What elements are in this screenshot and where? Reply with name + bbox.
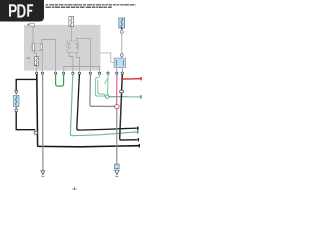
B3 pin right down (121, 68, 123, 73)
heavy dark wire down with L to tick (120, 74, 137, 140)
wire R1 to fuse F1 (34, 51, 37, 57)
end tick green bus (137, 130, 138, 133)
green wire right to edge (109, 96, 140, 98)
connector circle C1 (105, 95, 109, 99)
wire R1 right pin down to terminal (41, 51, 43, 73)
relay R2 (dashed box with coil and contact) (67, 41, 78, 52)
blue square connector (115, 164, 120, 169)
end tick green right (140, 95, 141, 98)
light green wire down to green bus (70, 74, 136, 135)
junction square (34, 131, 37, 134)
relay B3 (blue box) (114, 58, 125, 68)
page arrow on left branch (15, 91, 18, 94)
wire R2 top-right jog to terminal 90 (77, 38, 91, 72)
connector circle below B2 (15, 107, 17, 109)
end tick bus2 (139, 144, 140, 148)
green M diagonal (105, 79, 108, 85)
stub into B3 (121, 56, 123, 58)
page background (0, 0, 149, 198)
B3 pin left down (116, 68, 118, 73)
red wire tee (122, 78, 140, 80)
fuse F1 (27, 57, 39, 66)
black wire B2 down and right to junction square (16, 112, 35, 130)
ground tick (41, 175, 44, 177)
wire F1 to terminal (36, 66, 38, 73)
fuse F2 (on top edge) (69, 17, 74, 27)
grey wire to circle C2 (90, 74, 115, 106)
black wire down to bus1 (77, 74, 137, 130)
oval connector on dark wire (120, 90, 124, 93)
end tick bus1 (137, 127, 138, 130)
green M right arm (107, 74, 109, 94)
arrow below blue square (115, 170, 119, 175)
pink wire down to C2 (116, 74, 118, 104)
black tee to left branch (16, 79, 37, 90)
PDF letters drawn as paths (10, 5, 33, 16)
green M loop outer (95, 74, 105, 96)
wire grey box to blue relay B3 (100, 53, 114, 62)
fusible link B2 (blue box left) (13, 95, 19, 106)
wire F3 down to B3 (121, 33, 123, 53)
junction block (grey box) (24, 25, 100, 71)
ground arrow left (41, 171, 45, 175)
wire box2 to relay R1 (32, 26, 34, 43)
wire R2 right pin down (77, 52, 80, 72)
PDF badge (0, 0, 44, 22)
terminals along box bottom (36, 72, 124, 74)
grey wire below C2 to blue square (116, 109, 118, 164)
grey wire T2 straight down to ground arrow (42, 74, 44, 170)
wire bottom bus inside box (64, 67, 100, 73)
page number (72, 188, 77, 190)
fuse F3 (blue, top right) (119, 18, 125, 28)
end tick dark L (138, 138, 139, 141)
connector circle above B3 (120, 54, 123, 57)
relay R1 (dashed box with coil and contact) (32, 43, 43, 51)
connector box 2 (top-left small box on box edge) (28, 23, 35, 26)
end tick red (140, 77, 141, 80)
dot below F3 (121, 28, 123, 30)
header title micro-text line 2 (46, 7, 112, 8)
header title micro-text line 1 (46, 4, 136, 5)
connector circle C2 (115, 104, 119, 108)
tick below arrow (115, 176, 118, 178)
black wire T1 straight down to bus2 and right (37, 74, 139, 146)
green M loop inner (98, 80, 105, 96)
green U loop (56, 74, 64, 86)
wire R2 left pin down (69, 52, 73, 72)
wire F2 to relay R2 (70, 27, 72, 42)
connector circle below F3 (120, 31, 123, 34)
stub above terminal 108 (107, 71, 109, 73)
wire R1 jog to U-loop terminal (42, 40, 56, 73)
